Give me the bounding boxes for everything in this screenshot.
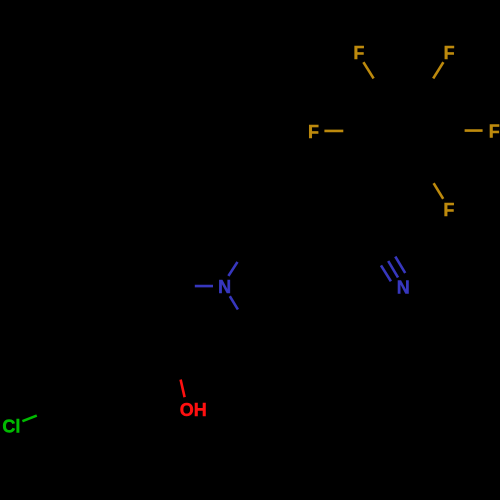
bond C5-F5 half (orange) bbox=[434, 183, 444, 199]
bond C1-F3 half (orange) bbox=[324, 130, 343, 133]
bond C#N2 triple, line 2 (blue half) bbox=[388, 261, 398, 278]
svg-text:F: F bbox=[444, 43, 455, 63]
bond C-Cl half (green) bbox=[22, 416, 36, 422]
svg-text:Cl: Cl bbox=[2, 416, 20, 436]
svg-text:N: N bbox=[397, 278, 410, 298]
bond N1-C(up-right) half (blue) bbox=[228, 262, 237, 276]
bond C4-F4 half (orange) bbox=[465, 129, 483, 132]
bond C#N2 triple, line 3 (blue half) bbox=[395, 257, 405, 273]
bond C3-F2 half (orange) bbox=[433, 62, 443, 78]
bond N1-C(left methyl) half (blue) bbox=[195, 285, 213, 288]
svg-text:OH: OH bbox=[180, 400, 207, 420]
svg-text:F: F bbox=[308, 122, 319, 142]
svg-text:F: F bbox=[443, 200, 454, 220]
svg-text:F: F bbox=[489, 122, 500, 142]
bond N1-C(down-right) half (blue) bbox=[230, 296, 238, 309]
svg-text:N: N bbox=[218, 277, 231, 297]
bond C-O half (red) bbox=[181, 380, 185, 398]
bond C#N2 triple, line 1 (blue half) bbox=[381, 265, 391, 281]
svg-text:F: F bbox=[353, 43, 364, 63]
bond C2-F1 half (orange) bbox=[363, 62, 373, 78]
